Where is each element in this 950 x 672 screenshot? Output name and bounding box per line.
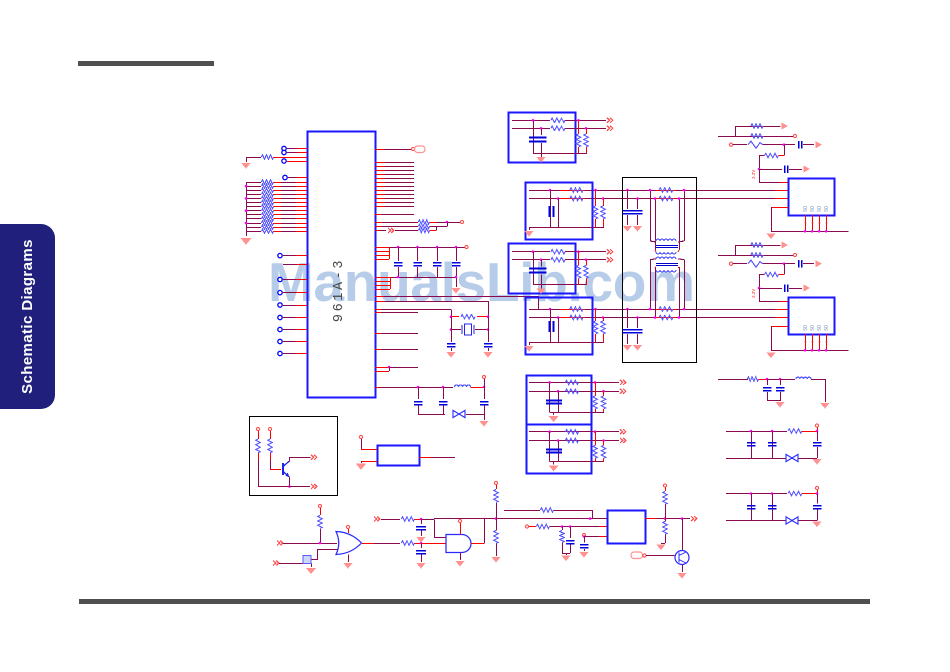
svg-text:SD: SD	[817, 205, 822, 212]
svg-text:961A-3: 961A-3	[332, 258, 347, 322]
svg-text:SD: SD	[803, 205, 808, 212]
svg-text:SD: SD	[824, 324, 829, 331]
svg-text:SD: SD	[810, 205, 815, 212]
svg-text:3.3V: 3.3V	[751, 289, 756, 298]
svg-text:SD: SD	[824, 205, 829, 212]
svg-text:SD: SD	[810, 324, 815, 331]
svg-text:SD: SD	[803, 324, 808, 331]
svg-text:3.3V: 3.3V	[751, 170, 756, 179]
svg-text:SD: SD	[817, 324, 822, 331]
